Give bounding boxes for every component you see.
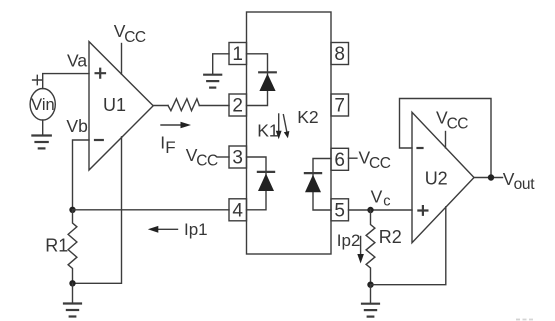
svg-text:CC: CC [124,29,146,46]
op-amp U2 [412,112,474,242]
svg-text:out: out [514,176,536,193]
voltage source Vin [30,89,55,121]
node Vc [367,187,390,214]
power VCC (pin 3) [186,145,229,170]
faint page artifact bottom right [516,319,533,321]
ground (R2) [362,285,379,317]
wire Vin to U1 + input (node Va) [43,74,89,89]
resistor (LED drive, unnamed) [168,99,199,111]
wire U1 inverting input to feedback node [73,140,90,210]
pin 4 [229,199,247,222]
pin 8 [331,43,349,66]
wire U2 negative supply to ground rail [371,207,446,285]
op-amp U1 [89,42,153,170]
ground (pin 1) [204,54,229,88]
resistor R1 [45,210,77,283]
current arrow IF [160,122,191,157]
pin 2 [229,94,247,117]
svg-text:U2: U2 [425,168,448,188]
node at R1 bottom / ground rail [69,280,75,286]
wire U1 output to series resistor [153,105,168,107]
svg-text:Va: Va [67,50,87,70]
svg-text:3: 3 [232,148,243,169]
svg-text:R2: R2 [379,227,402,247]
svg-text:R1: R1 [45,236,68,256]
node at R2 bottom / ground rail [367,282,373,288]
ground (R1) [64,283,81,316]
wire node to pin 4 [73,209,230,211]
optocoupler IC body [247,12,332,254]
node at R1 top / feedback junction [69,207,75,213]
svg-text:CC: CC [196,153,218,170]
plus polarity mark [33,75,42,84]
svg-text:CC: CC [369,155,391,172]
svg-text:Ip2: Ip2 [337,231,361,250]
power VCC (pin 6) [349,147,391,172]
power VCC (U2) [436,108,468,148]
svg-text:1: 1 [232,44,243,65]
svg-text:5: 5 [334,200,345,221]
wire pin 5 to U2 non-inverting input [349,209,413,211]
wire U2 output [474,177,503,179]
LED (pins 1-2) [247,54,276,106]
resistor R2 [366,210,402,285]
svg-text:6: 6 [334,150,345,171]
svg-text:F: F [165,138,175,157]
svg-text:Vin: Vin [31,96,55,114]
svg-text:Vb: Vb [66,116,87,136]
pin 3 [229,146,247,169]
power VCC (U1) [114,21,146,74]
svg-text:K2: K2 [297,107,318,127]
svg-text:7: 7 [334,96,345,117]
svg-text:2: 2 [232,96,243,117]
svg-text:8: 8 [334,44,345,65]
ground (Vin) [32,120,50,148]
svg-text:K1: K1 [257,121,278,141]
coupling arrows K1 [257,114,289,141]
svg-text:c: c [383,193,390,209]
wire U1 negative supply to ground rail [73,137,122,283]
svg-text:4: 4 [232,200,243,221]
current arrow Ip1 [148,220,208,239]
svg-text:CC: CC [447,115,469,132]
node Vout [488,169,535,193]
pin 5 [331,199,349,222]
svg-text:Ip1: Ip1 [184,220,208,239]
current arrow Ip2 [337,231,364,264]
feedback wire U2 output to inverting input [400,99,492,178]
photodiode (pins 3-4) [247,157,275,210]
svg-text:U1: U1 [103,95,126,115]
pin 1 [229,43,247,66]
photodiode (pins 5-6) [305,159,331,211]
wire resistor to pin 2 [199,105,229,107]
svg-text:V: V [371,187,383,207]
pin 6 [331,148,349,171]
pin 7 [331,94,349,117]
